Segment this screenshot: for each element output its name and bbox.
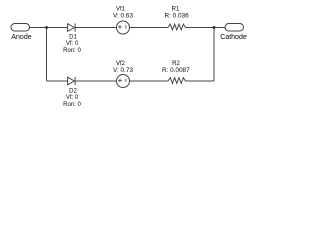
svg-text:V: 0.73: V: 0.73: [113, 67, 133, 74]
svg-text:V: 0.63: V: 0.63: [113, 13, 133, 20]
svg-text:D1: D1: [69, 35, 77, 41]
svg-text:D2: D2: [69, 88, 77, 94]
svg-text:R: 0.036: R: 0.036: [165, 13, 190, 20]
svg-text:R: 0.0087: R: 0.0087: [162, 67, 190, 74]
svg-text:Ron: 0: Ron: 0: [63, 102, 81, 108]
svg-text:Anode: Anode: [11, 34, 31, 41]
svg-text:Cathode: Cathode: [220, 34, 247, 41]
svg-text:Ron: 0: Ron: 0: [63, 48, 81, 54]
svg-text:Vf: 0: Vf: 0: [66, 95, 79, 101]
svg-text:Vf: 0: Vf: 0: [66, 41, 79, 47]
